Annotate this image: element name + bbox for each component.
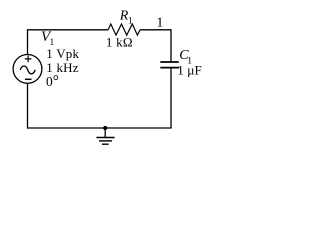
svg-text:1: 1 bbox=[156, 15, 163, 30]
plus sign bbox=[25, 56, 32, 63]
wire top-right horizontal bbox=[140, 29, 171, 31]
AC source V1 circle bbox=[13, 55, 42, 84]
capacitor C1 top plate bbox=[160, 61, 178, 63]
svg-text:1 kHz: 1 kHz bbox=[46, 60, 78, 75]
svg-text:1: 1 bbox=[128, 16, 133, 26]
svg-text:1 µF: 1 µF bbox=[177, 63, 201, 78]
wire right vertical to capacitor bbox=[170, 29, 172, 62]
ground bar 1 bbox=[96, 137, 114, 139]
svg-text:1 kΩ: 1 kΩ bbox=[106, 34, 133, 49]
ground stub bbox=[104, 128, 106, 138]
ground junction dot bbox=[103, 126, 107, 130]
wire below capacitor bbox=[170, 68, 172, 128]
bottom wire bbox=[28, 127, 172, 129]
capacitor C1 bottom plate bbox=[160, 67, 179, 69]
svg-text:0°: 0° bbox=[46, 73, 59, 90]
wire left vertical below source bbox=[27, 83, 29, 128]
ground bar 3 bbox=[102, 143, 109, 145]
wire top-left horizontal bbox=[28, 29, 109, 31]
ground bar 2 bbox=[99, 140, 112, 142]
svg-text:1 Vpk: 1 Vpk bbox=[46, 46, 79, 61]
minus sign bbox=[25, 78, 32, 80]
resistor R1 bbox=[108, 24, 140, 35]
wire left vertical above source bbox=[27, 29, 29, 54]
sine symbol bbox=[20, 66, 35, 74]
